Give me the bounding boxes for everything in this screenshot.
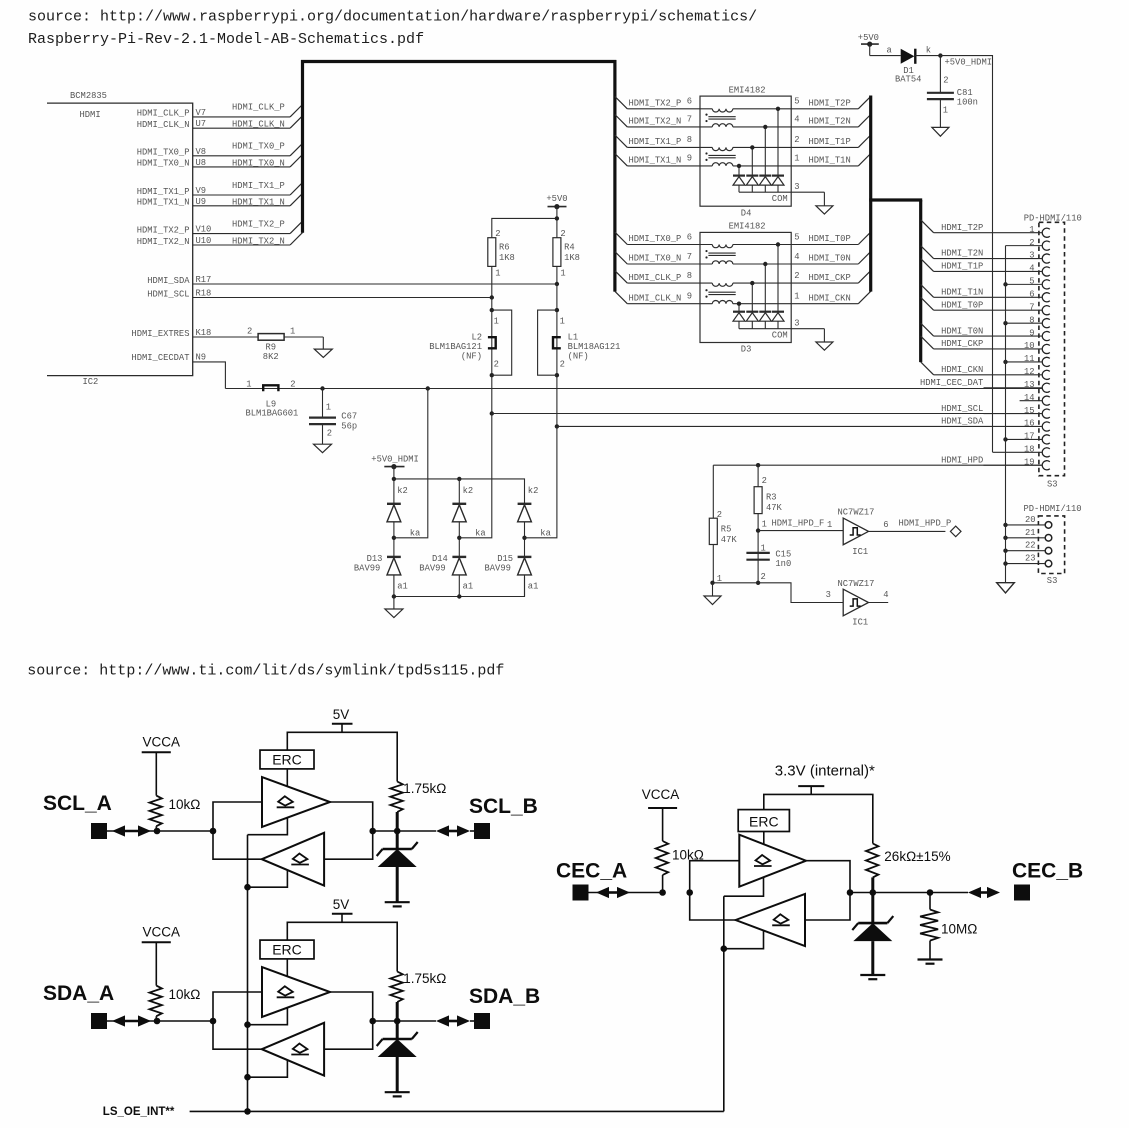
svg-text:10kΩ: 10kΩ xyxy=(169,797,201,812)
svg-text:D14: D14 xyxy=(432,554,448,564)
svg-text:VCCA: VCCA xyxy=(143,924,181,939)
wire forward buffer output to B node (CEC) xyxy=(806,861,850,893)
svg-text:9: 9 xyxy=(1029,328,1034,338)
svg-text:3: 3 xyxy=(794,319,799,329)
node junction B (SDA_B) xyxy=(369,1018,376,1025)
svg-text:1: 1 xyxy=(1029,225,1034,235)
IC U: BCM2835 HDMI block (IC2) outline xyxy=(47,103,193,376)
supply VCCA symbol (SDA_A side) xyxy=(142,924,180,985)
svg-text:BAV99: BAV99 xyxy=(485,564,511,574)
wire +5V0 rail to R6/R4 tops xyxy=(492,216,559,238)
wire LS_OE_INT enable vertical (SCL/SDA) xyxy=(247,835,249,1112)
svg-text:HDMI_CLK_P: HDMI_CLK_P xyxy=(137,109,190,119)
S3 pin 5 xyxy=(1003,277,1050,289)
ground below R9 xyxy=(314,349,332,357)
svg-text:C81: C81 xyxy=(957,88,973,98)
svg-text:19: 19 xyxy=(1024,457,1035,467)
pin U10 HDMI_TX2_N of IC2, wire and net label xyxy=(137,233,303,247)
resistor 10k pull-up (CEC) xyxy=(656,841,704,896)
bus thick left vertical (BCM outputs) xyxy=(301,60,304,233)
D4 common-mode choke (coupled coils) rows 6/7 xyxy=(705,109,735,127)
D4 ESD diode 3 to row pin 7 xyxy=(759,125,771,192)
ERC box (CEC) xyxy=(738,810,789,847)
enable stub reverse buffer (SCL_A) xyxy=(244,870,287,890)
svg-text:BAV99: BAV99 xyxy=(419,564,445,574)
D3 pin 3 COM wire and ground xyxy=(739,319,833,351)
svg-text:IC2: IC2 xyxy=(83,377,99,387)
buffer forward A-to-B (SDA_A) xyxy=(262,967,330,1017)
svg-text:1: 1 xyxy=(761,543,766,553)
svg-text:source: http://www.ti.com/lit/: source: http://www.ti.com/lit/ds/symlink… xyxy=(27,663,504,680)
node junction R3 / HDMI_HPD xyxy=(756,463,760,467)
svg-text:HDMI_TX2_P: HDMI_TX2_P xyxy=(629,99,682,109)
svg-text:VCCA: VCCA xyxy=(143,734,181,749)
S3 pin 14 xyxy=(1020,393,1050,405)
connector S3 PD-HDMI/110 dashed outline (pins 20-23) xyxy=(1038,516,1064,574)
pin V7 HDMI_CLK_P of IC2, wire and net label xyxy=(137,103,303,119)
svg-text:HDMI_TX1_N: HDMI_TX1_N xyxy=(629,156,682,166)
svg-text:D15: D15 xyxy=(497,554,513,564)
svg-text:HDMI_TX2_N: HDMI_TX2_N xyxy=(232,237,285,247)
enable stub forward buffer (CEC) xyxy=(724,878,764,897)
enable stub forward buffer (SCL_A) xyxy=(248,818,288,835)
buffer IC1b NC7WZ17 (spare) xyxy=(838,579,889,627)
svg-text:COM: COM xyxy=(772,194,788,204)
capacitor C15 1n0 xyxy=(746,543,791,582)
svg-text:HDMI_TX1_P: HDMI_TX1_P xyxy=(137,187,190,197)
svg-text:HDMI_CLK_N: HDMI_CLK_N xyxy=(629,293,682,303)
pin U9 HDMI_TX1_N of IC2, wire and net label xyxy=(137,193,303,207)
svg-text:2: 2 xyxy=(494,359,499,369)
ground below R5/C15 rail xyxy=(704,596,721,605)
D3 pin 5 output wire HDMI_T0P xyxy=(791,232,871,244)
wire reverse buffer input to B node (SDA_B) xyxy=(324,1021,373,1049)
svg-text:R4: R4 xyxy=(564,242,575,252)
svg-text:1: 1 xyxy=(794,292,799,302)
connector S3 PD-HDMI/110 dashed outline (pins 1-19) xyxy=(1039,222,1065,475)
svg-text:2: 2 xyxy=(762,476,767,486)
wire +5V0 to D1 anode xyxy=(870,55,901,57)
svg-text:CEC_B: CEC_B xyxy=(1012,860,1083,883)
S3 pin 3 net HDMI_T2N xyxy=(921,246,1050,263)
wire reverse buffer input to B node (SCL_B) xyxy=(324,831,373,859)
ground below zener (SDA_B side) xyxy=(385,1091,410,1093)
node junction A (CEC) xyxy=(686,889,693,896)
svg-text:18: 18 xyxy=(1024,445,1035,455)
S3 pin 17 xyxy=(1003,432,1050,444)
EMI filter D4 EMI4182 box outline xyxy=(700,96,791,206)
ground below C81 xyxy=(932,127,949,136)
svg-text:2: 2 xyxy=(247,326,252,336)
svg-text:HDMI_TX0_P: HDMI_TX0_P xyxy=(232,142,285,152)
svg-text:HDMI_CKP: HDMI_CKP xyxy=(941,339,983,349)
svg-text:EMI4182: EMI4182 xyxy=(729,85,766,95)
svg-text:HDMI_SCL: HDMI_SCL xyxy=(941,404,983,414)
svg-text:D3: D3 xyxy=(741,345,752,355)
svg-text:10kΩ: 10kΩ xyxy=(169,987,201,1002)
svg-text:SCL_A: SCL_A xyxy=(43,792,112,815)
resistor R5 47K xyxy=(709,465,737,584)
svg-text:HDMI_CECDAT: HDMI_CECDAT xyxy=(131,353,189,363)
node junction CEC_DAT / D13 branch xyxy=(426,386,430,390)
svg-text:5V: 5V xyxy=(333,707,350,722)
bidirectional arrow at SCL_A xyxy=(121,830,142,833)
svg-text:2: 2 xyxy=(327,429,332,439)
svg-text:7: 7 xyxy=(1029,302,1034,312)
capacitor C67 56p xyxy=(309,389,357,445)
wire net LS_OE_INT horizontal xyxy=(190,1108,724,1115)
svg-text:17: 17 xyxy=(1024,432,1035,442)
D3 pin 4 output wire HDMI_T0N xyxy=(791,252,871,264)
svg-text:4: 4 xyxy=(794,115,799,125)
pad terminal SCL_A xyxy=(91,823,107,839)
svg-text:2: 2 xyxy=(761,572,766,582)
svg-text:ERC: ERC xyxy=(749,813,779,829)
svg-text:5V: 5V xyxy=(333,897,350,912)
svg-text:HDMI_TX1_N: HDMI_TX1_N xyxy=(232,197,285,207)
D3 pin 6 input wire HDMI_TX0_P xyxy=(615,232,791,244)
ERC box (SDA_A side) xyxy=(260,940,314,976)
svg-text:BLM1BAG601: BLM1BAG601 xyxy=(246,409,299,419)
S3 pin 21 (shield) xyxy=(1003,528,1051,541)
pad terminal CEC_B xyxy=(1014,885,1030,901)
svg-text:HDMI_TX0_N: HDMI_TX0_N xyxy=(629,254,682,264)
svg-text:HDMI_SDA: HDMI_SDA xyxy=(941,417,984,427)
wire B line (SCL_B) xyxy=(373,830,436,832)
D4 pin 1 output wire HDMI_T1N xyxy=(791,154,871,166)
svg-text:26kΩ±15%: 26kΩ±15% xyxy=(884,849,950,864)
svg-text:1.75kΩ: 1.75kΩ xyxy=(403,781,446,796)
svg-text:IC1: IC1 xyxy=(852,617,868,627)
wire net HDMI_HPD_F to buffer IC1 input xyxy=(758,518,843,530)
svg-text:12: 12 xyxy=(1024,367,1035,377)
node junction B (CEC) xyxy=(847,889,854,896)
svg-text:8: 8 xyxy=(687,271,692,281)
svg-text:2: 2 xyxy=(794,271,799,281)
wire B line (SDA_B) xyxy=(373,1020,436,1022)
wire CEC_B line xyxy=(850,892,968,894)
svg-text:HDMI_TX2_P: HDMI_TX2_P xyxy=(137,225,190,235)
wire reverse buffer input to B node (CEC) xyxy=(805,893,850,921)
S3 pin 15 net HDMI_SCL xyxy=(941,404,1050,418)
wire CEC_A line xyxy=(589,892,631,894)
svg-text:1.75kΩ: 1.75kΩ xyxy=(403,971,446,986)
svg-text:1: 1 xyxy=(762,519,767,529)
svg-text:HDMI_T2N: HDMI_T2N xyxy=(809,117,851,127)
D3 pin 8 input wire HDMI_CLK_P xyxy=(615,271,791,283)
S3 pin 9 net HDMI_T0N xyxy=(921,323,1050,340)
D4 pin 5 output wire HDMI_T2P xyxy=(791,96,871,108)
svg-text:k: k xyxy=(926,46,931,56)
D4 ESD diode 2 to row pin 8 xyxy=(746,145,758,192)
svg-text:BLM18AG121: BLM18AG121 xyxy=(568,342,621,352)
supply VCCA symbol (SCL_A side) xyxy=(142,734,180,795)
wire A node to forward buffer input (CEC) xyxy=(690,861,740,893)
svg-text:1: 1 xyxy=(794,154,799,164)
pin U7 HDMI_CLK_N of IC2, wire and net label xyxy=(137,116,303,130)
svg-text:3: 3 xyxy=(1029,251,1034,261)
svg-text:NC7WZ17: NC7WZ17 xyxy=(838,508,875,518)
resistor 10k pull-up (SCL_A side) xyxy=(149,796,200,835)
svg-text:1: 1 xyxy=(246,379,251,389)
pin V9 HDMI_TX1_P of IC2, wire and net label xyxy=(137,181,303,197)
ground below C67 xyxy=(314,444,332,453)
svg-text:HDMI_CLK_P: HDMI_CLK_P xyxy=(629,273,682,283)
svg-text:BAT54: BAT54 xyxy=(895,75,921,85)
node junction R6 / HDMI_SCL xyxy=(490,295,494,299)
svg-text:C67: C67 xyxy=(341,412,357,422)
svg-text:HDMI_T2N: HDMI_T2N xyxy=(941,249,983,259)
svg-text:4: 4 xyxy=(794,252,799,262)
D3 pin 9 input wire HDMI_CLK_N xyxy=(615,291,791,303)
svg-text:8K2: 8K2 xyxy=(263,352,279,362)
svg-text:6: 6 xyxy=(687,97,692,107)
bidirectional arrow at SDA_A xyxy=(121,1020,142,1023)
zener ESD clamp (SDA_B side) xyxy=(377,1032,418,1092)
svg-text:8: 8 xyxy=(1029,315,1034,325)
pin K18 HDMI_EXTRES of IC2 and wire to R9 xyxy=(131,328,259,339)
svg-text:HDMI_CLK_P: HDMI_CLK_P xyxy=(232,103,285,113)
pad terminal SCL_B xyxy=(474,823,490,839)
svg-text:3.3V (internal)*: 3.3V (internal)* xyxy=(775,763,875,780)
S3 pin 11 xyxy=(1003,354,1050,366)
wire +5V0_HDMI rail over clamp diodes xyxy=(392,477,525,504)
svg-text:+5V0: +5V0 xyxy=(546,194,567,204)
S3 pin 20 (shield) xyxy=(1003,515,1051,528)
svg-text:HDMI_SCL: HDMI_SCL xyxy=(147,289,189,299)
enable stub reverse buffer (SDA_A) xyxy=(244,1060,287,1080)
svg-text:2: 2 xyxy=(560,359,565,369)
wire A node to reverse buffer output (SCL_A) xyxy=(213,831,262,859)
svg-text:+5V0: +5V0 xyxy=(858,33,879,43)
node junction R4 / HDMI_SDA xyxy=(555,282,559,286)
D3 common-mode choke (coupled coils) rows 6/7 xyxy=(705,245,735,265)
D4 pin 8 input wire HDMI_TX1_P xyxy=(615,135,791,147)
wire clamp anode rail to ground xyxy=(392,577,525,599)
D3 pin 1 output wire HDMI_CKN xyxy=(791,291,871,303)
buffer reverse B-to-A (SDA_A) xyxy=(262,1023,324,1076)
svg-text:10MΩ: 10MΩ xyxy=(941,922,977,937)
svg-text:BCM2835: BCM2835 xyxy=(70,91,107,101)
svg-text:HDMI_TX2_P: HDMI_TX2_P xyxy=(232,219,285,229)
svg-text:SDA_B: SDA_B xyxy=(469,985,540,1008)
svg-text:1: 1 xyxy=(560,316,565,326)
node junction B (SCL_B) xyxy=(369,828,376,835)
svg-text:IC1: IC1 xyxy=(852,547,868,557)
D4 common-mode choke (coupled coils) rows 8/9 xyxy=(705,147,735,166)
svg-text:HDMI_CKN: HDMI_CKN xyxy=(809,293,851,303)
wire 5V rail (SCL_A side) xyxy=(287,732,397,781)
svg-text:23: 23 xyxy=(1025,554,1036,564)
bus thick elbow horizontal xyxy=(869,198,922,201)
resistor 10M pull-down (CEC) xyxy=(920,889,977,959)
D3 ESD diode 4 to row pin 6 xyxy=(772,242,784,328)
S3 pin 6 net HDMI_T1N xyxy=(921,284,1050,301)
svg-text:HDMI_HPD_F: HDMI_HPD_F xyxy=(772,518,825,528)
wire forward buffer output to B node (SDA_B) xyxy=(330,992,373,1021)
svg-text:R9: R9 xyxy=(266,343,277,353)
svg-text:22: 22 xyxy=(1025,541,1036,551)
diode D14 BAV99 dual clamp xyxy=(419,414,492,597)
resistor R3 47K xyxy=(754,465,782,583)
wire net HDMI_HPD to S3 pin 19 xyxy=(713,464,1042,466)
svg-text:L1: L1 xyxy=(568,332,579,342)
svg-text:ERC: ERC xyxy=(272,942,302,958)
svg-text:EMI4182: EMI4182 xyxy=(729,222,766,232)
S3 pin 1 net HDMI_T2P xyxy=(921,220,1050,238)
wire ground rail R5/C15 to lower buffer input xyxy=(710,581,843,603)
svg-text:ka: ka xyxy=(410,529,421,539)
resistor 1.75k pull-up (SCL_B side) xyxy=(390,781,446,849)
enable stub forward buffer (SDA_A) xyxy=(244,1008,287,1028)
capacitor C81 100n xyxy=(927,56,978,128)
pad terminal SDA_B xyxy=(474,1013,490,1029)
svg-text:k2: k2 xyxy=(397,486,408,496)
svg-text:1n0: 1n0 xyxy=(775,559,791,569)
svg-text:(NF): (NF) xyxy=(568,351,589,361)
diode D15 BAV99 dual clamp xyxy=(485,426,557,596)
wire 3.3V rail (CEC) xyxy=(764,794,873,843)
svg-text:HDMI_TX0_P: HDMI_TX0_P xyxy=(629,234,682,244)
enable stub reverse buffer (CEC) xyxy=(721,930,764,952)
svg-text:1K8: 1K8 xyxy=(564,253,580,263)
resistor 1.75k pull-up (SDA_B side) xyxy=(390,971,446,1039)
svg-text:47K: 47K xyxy=(766,503,783,513)
resistor R6 1K8 xyxy=(488,229,515,297)
svg-text:COM: COM xyxy=(772,331,788,341)
D3 pin 7 input wire HDMI_TX0_N xyxy=(615,252,791,264)
bidirectional arrow at SDA_B xyxy=(445,1020,461,1023)
pin U8 HDMI_TX0_N of IC2, wire and net label xyxy=(137,155,303,169)
svg-text:5: 5 xyxy=(794,97,799,107)
svg-text:6: 6 xyxy=(1029,290,1034,300)
power symbol +5V0 (above R4) xyxy=(546,194,567,218)
svg-text:1: 1 xyxy=(827,520,832,530)
svg-text:HDMI_HPD_P: HDMI_HPD_P xyxy=(899,518,952,528)
svg-text:1: 1 xyxy=(290,326,295,336)
inductor L9 BLM18AG601 (CEC filter bead) xyxy=(225,379,1042,418)
svg-text:HDMI: HDMI xyxy=(80,110,101,120)
svg-text:2: 2 xyxy=(495,229,500,239)
svg-text:HDMI_CLK_N: HDMI_CLK_N xyxy=(232,120,285,130)
S3 pin 8 xyxy=(1003,315,1050,327)
svg-text:C15: C15 xyxy=(775,549,791,559)
ground below clamp diode array xyxy=(385,597,403,618)
ground below zener (SCL_B side) xyxy=(385,901,410,903)
buffer forward A-to-B (CEC) xyxy=(739,835,806,887)
svg-text:k2: k2 xyxy=(463,486,474,496)
svg-text:2: 2 xyxy=(1029,238,1034,248)
S3 pin 4 net HDMI_T1P xyxy=(921,259,1050,277)
svg-text:56p: 56p xyxy=(341,421,357,431)
supply 3.3V (internal) symbol (CEC) xyxy=(775,763,875,795)
svg-text:HDMI_TX0_N: HDMI_TX0_N xyxy=(232,158,285,168)
S3 pin 13 net HDMI_CEC_DAT xyxy=(920,378,1050,392)
buffer reverse B-to-A (CEC) xyxy=(736,894,805,946)
svg-text:7: 7 xyxy=(687,252,692,262)
svg-text:HDMI_TX0_N: HDMI_TX0_N xyxy=(137,159,190,169)
svg-text:LS_OE_INT**: LS_OE_INT** xyxy=(103,1106,175,1118)
svg-text:2: 2 xyxy=(290,379,295,389)
resistor R4 1K8 xyxy=(553,229,580,284)
svg-text:6: 6 xyxy=(687,232,692,242)
wire net HDMI_SDA to S3 pin 16 xyxy=(555,424,1042,428)
svg-text:D13: D13 xyxy=(367,554,383,564)
wire SCL_A line xyxy=(107,830,213,832)
S3 pin 18 xyxy=(993,445,1050,457)
EMI filter D3 EMI4182 box outline xyxy=(700,232,791,342)
svg-text:HDMI_EXTRES: HDMI_EXTRES xyxy=(131,329,189,339)
D3 ESD diode 3 to row pin 7 xyxy=(759,262,771,329)
svg-text:a1: a1 xyxy=(463,582,474,592)
wire A node to reverse buffer output (CEC) xyxy=(690,893,736,921)
svg-text:9: 9 xyxy=(687,154,692,164)
wire A node to forward buffer input (SDA_A) xyxy=(213,992,262,1021)
svg-text:+5V0_HDMI: +5V0_HDMI xyxy=(945,58,993,68)
S3 pin 2 xyxy=(1006,238,1050,250)
S3 pin 22 (shield) xyxy=(1003,541,1051,554)
svg-text:HDMI_TX1_P: HDMI_TX1_P xyxy=(232,181,285,191)
inductor L2 BLM18AG121 (NF) with bypass loop xyxy=(429,298,511,414)
buffer forward A-to-B (SCL_A) xyxy=(262,777,330,827)
svg-text:CEC_A: CEC_A xyxy=(556,860,627,883)
svg-text:Raspberry-Pi-Rev-2.1-Model-AB-: Raspberry-Pi-Rev-2.1-Model-AB-Schematics… xyxy=(28,31,424,48)
svg-text:a1: a1 xyxy=(528,582,539,592)
D4 pin 2 output wire HDMI_T1P xyxy=(791,135,871,147)
D4 ESD diode 4 to row pin 6 xyxy=(772,107,784,193)
svg-text:HDMI_T1N: HDMI_T1N xyxy=(809,156,851,166)
svg-text:VCCA: VCCA xyxy=(642,787,680,802)
resistor 26k pull-up (CEC) xyxy=(866,844,951,924)
svg-text:R3: R3 xyxy=(766,493,777,503)
D4 ESD diode 1 to row pin 9 xyxy=(733,164,745,193)
wire SDA_A line xyxy=(107,1020,213,1022)
wire A node to forward buffer input (SCL_A) xyxy=(213,802,262,831)
D3 ESD diode 1 to row pin 9 xyxy=(733,302,745,329)
S3 pin 23 (shield) xyxy=(1003,554,1051,567)
bus thick right vertical (EMI inputs) xyxy=(613,60,616,292)
pin N9 HDMI_CECDAT of IC2 and wire xyxy=(131,353,225,389)
svg-text:N9: N9 xyxy=(196,353,207,363)
D4 pin 9 input wire HDMI_TX1_N xyxy=(615,154,791,166)
buffer reverse B-to-A (SCL_A) xyxy=(262,833,324,886)
svg-text:1: 1 xyxy=(495,269,500,279)
svg-text:R6: R6 xyxy=(499,242,510,252)
svg-text:3: 3 xyxy=(826,590,831,600)
svg-text:HDMI_T0P: HDMI_T0P xyxy=(809,234,851,244)
resistor 10k pull-up (SDA_A side) xyxy=(149,986,200,1025)
svg-text:ka: ka xyxy=(540,529,551,539)
svg-text:+5V0_HDMI: +5V0_HDMI xyxy=(371,455,419,465)
svg-text:HDMI_T2P: HDMI_T2P xyxy=(809,99,851,109)
svg-text:SDA_A: SDA_A xyxy=(43,982,114,1005)
ground symbol below S3 pins 20-23 xyxy=(997,583,1015,593)
svg-text:16: 16 xyxy=(1024,419,1035,429)
pin V8 HDMI_TX0_P of IC2, wire and net label xyxy=(137,142,303,158)
svg-text:8: 8 xyxy=(687,135,692,145)
D4 pin 6 input wire HDMI_TX2_P xyxy=(615,96,791,108)
svg-text:1: 1 xyxy=(943,106,948,116)
wire shield ground vertical from S3 pin 2 to pins 20-23 xyxy=(1005,246,1007,583)
svg-text:k2: k2 xyxy=(528,486,539,496)
svg-text:HDMI_HPD: HDMI_HPD xyxy=(941,455,983,465)
supply VCCA symbol (CEC) xyxy=(642,787,680,841)
S3 pin 12 net HDMI_CKN xyxy=(921,362,1050,379)
pin V10 HDMI_TX2_P of IC2, wire and net label xyxy=(137,219,303,235)
svg-text:HDMI_TX1_N: HDMI_TX1_N xyxy=(137,198,190,208)
svg-text:1K8: 1K8 xyxy=(499,253,515,263)
svg-text:a: a xyxy=(887,46,892,56)
